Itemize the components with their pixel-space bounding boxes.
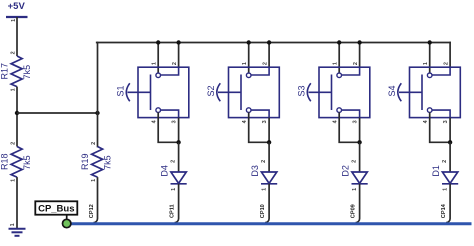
- svg-text:1: 1: [261, 188, 267, 191]
- diode D4: [159, 160, 186, 191]
- svg-text:7k5: 7k5: [22, 65, 32, 80]
- wire S2 pin1: [248, 43, 250, 74]
- wire S2 pin2: [268, 43, 270, 68]
- svg-text:1: 1: [333, 62, 339, 65]
- svg-text:S4: S4: [387, 85, 397, 96]
- svg-text:2: 2: [11, 142, 17, 145]
- svg-text:7k5: 7k5: [103, 155, 113, 170]
- wire S3 pin2: [359, 43, 361, 68]
- wire S4 pin1: [429, 43, 431, 74]
- svg-text:1: 1: [242, 62, 248, 65]
- wire S3 pin4: [339, 112, 359, 142]
- svg-text:2: 2: [353, 62, 359, 65]
- svg-text:1: 1: [11, 19, 17, 22]
- svg-text:2: 2: [11, 51, 17, 54]
- svg-text:S3: S3: [297, 85, 307, 96]
- svg-text:2: 2: [261, 160, 267, 163]
- junction: [176, 40, 180, 44]
- wire: [175, 184, 179, 223]
- diode D2: [340, 160, 367, 191]
- wire: [268, 142, 270, 172]
- svg-text:2: 2: [443, 62, 449, 65]
- svg-text:D2: D2: [340, 165, 350, 177]
- wire S1 pin2: [178, 43, 180, 68]
- svg-text:7k5: 7k5: [22, 155, 32, 170]
- svg-text:D3: D3: [250, 165, 260, 177]
- svg-text:S2: S2: [206, 85, 216, 96]
- wire: [94, 177, 98, 223]
- svg-text:2: 2: [172, 62, 178, 65]
- junction: [95, 111, 99, 115]
- svg-text:1: 1: [442, 188, 448, 191]
- wire: [16, 87, 18, 147]
- svg-text:1: 1: [423, 62, 429, 65]
- junction: [267, 40, 271, 44]
- label CP_Bus: [35, 201, 77, 220]
- svg-text:D4: D4: [159, 165, 169, 177]
- svg-text:CP12: CP12: [89, 204, 95, 218]
- svg-text:R19: R19: [80, 154, 90, 171]
- svg-text:1: 1: [91, 179, 97, 182]
- wire: [356, 184, 360, 223]
- svg-text:1: 1: [352, 188, 358, 191]
- wire: [359, 142, 361, 172]
- wire S2 pin3: [268, 118, 270, 143]
- resistor R17: [0, 51, 32, 91]
- wire S4 pin2: [449, 43, 451, 68]
- ground: [9, 223, 26, 235]
- wire S4 pin4: [430, 112, 450, 142]
- svg-text:S1: S1: [116, 85, 126, 96]
- svg-text:1: 1: [152, 62, 158, 65]
- wire S4 pin3: [449, 118, 451, 143]
- junction: [357, 140, 361, 144]
- junction: [267, 140, 271, 144]
- switch S2: [206, 62, 279, 123]
- wire: [17, 112, 98, 114]
- junction: [247, 40, 251, 44]
- switch S4: [387, 62, 460, 123]
- svg-text:3: 3: [353, 120, 359, 123]
- wire +5V rail: [97, 42, 450, 44]
- power +5V: [6, 1, 28, 22]
- svg-text:+5V: +5V: [8, 1, 26, 12]
- svg-text:R18: R18: [0, 154, 10, 171]
- wire S1 pin1: [157, 43, 159, 74]
- switch S3: [297, 62, 370, 123]
- svg-text:CP14: CP14: [441, 203, 447, 218]
- svg-text:2: 2: [352, 160, 358, 163]
- svg-text:1: 1: [11, 179, 17, 182]
- wire S3 pin1: [338, 43, 340, 74]
- junction: [176, 140, 180, 144]
- wire S3 pin3: [359, 118, 361, 143]
- svg-text:1: 1: [11, 88, 17, 91]
- junction: [428, 40, 432, 44]
- wire: [16, 177, 18, 229]
- wire: [16, 17, 18, 56]
- svg-text:CP11: CP11: [170, 204, 176, 218]
- svg-text:D1: D1: [431, 165, 441, 177]
- wire: [178, 142, 180, 172]
- diode D1: [431, 160, 458, 191]
- diode D3: [250, 160, 277, 191]
- junction: [156, 40, 160, 44]
- junction: [448, 140, 452, 144]
- svg-text:3: 3: [443, 120, 449, 123]
- svg-text:2: 2: [91, 142, 97, 145]
- wire: [97, 43, 99, 147]
- resistor R18: [0, 142, 32, 182]
- svg-text:2: 2: [171, 160, 177, 163]
- svg-text:CP10: CP10: [260, 204, 266, 218]
- resistor R19: [80, 142, 113, 182]
- wire S1 pin4: [158, 112, 178, 142]
- svg-text:3: 3: [172, 120, 178, 123]
- svg-text:CP09: CP09: [351, 204, 357, 218]
- svg-text:3: 3: [262, 120, 268, 123]
- junction: [357, 40, 361, 44]
- wire S1 pin3: [178, 118, 180, 143]
- wire: [265, 184, 269, 223]
- bus CP_Bus: [67, 222, 472, 225]
- svg-text:1: 1: [171, 188, 177, 191]
- wire: [449, 142, 451, 172]
- junction: [15, 111, 19, 115]
- svg-text:1: 1: [10, 223, 16, 226]
- svg-text:2: 2: [262, 62, 268, 65]
- svg-text:CP_Bus: CP_Bus: [38, 204, 74, 215]
- junction: [337, 40, 341, 44]
- svg-text:R17: R17: [0, 63, 10, 80]
- node CP_Bus connection: [62, 219, 70, 227]
- wire: [446, 184, 450, 223]
- wire S2 pin4: [249, 112, 269, 142]
- switch S1: [116, 62, 189, 123]
- svg-text:2: 2: [442, 160, 448, 163]
